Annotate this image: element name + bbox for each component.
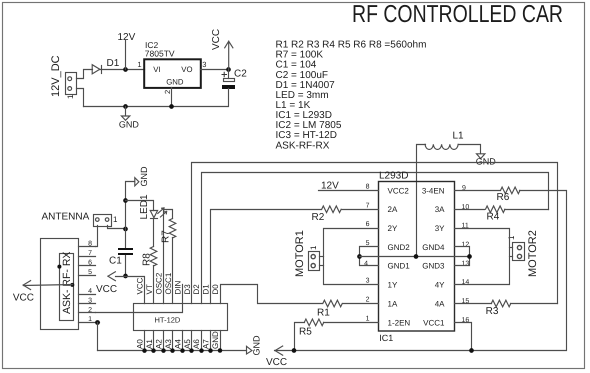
svg-text:3-4EN: 3-4EN: [422, 186, 445, 195]
gnd rail bottom left: [98, 350, 247, 352]
svg-text:LED1: LED1: [139, 194, 150, 219]
svg-text:14: 14: [462, 279, 470, 286]
junction A1: [151, 348, 156, 353]
MOTOR2 pin circle 2: [517, 254, 521, 258]
wire R8 to VT column: [153, 266, 155, 304]
resistor R1: [323, 300, 342, 307]
svg-text:1: 1: [137, 60, 141, 69]
connector J1 12V_DC body: [66, 73, 77, 95]
svg-text:VCC: VCC: [96, 284, 117, 295]
svg-text:VCC: VCC: [266, 357, 287, 368]
svg-text:12V: 12V: [118, 32, 136, 43]
diode D1 triangle: [92, 65, 100, 74]
wire R7 to OSC1 column: [172, 238, 174, 304]
LED1 triangle: [150, 211, 157, 218]
svg-text:1A: 1A: [388, 299, 398, 308]
wire MOTOR2 pin2 stub: [510, 256, 513, 258]
svg-text:A0: A0: [136, 339, 145, 349]
wire antenna left pin to ASK pin8: [96, 226, 98, 247]
antenna pin circle left: [96, 218, 100, 222]
wire pin15 to R3: [455, 303, 492, 305]
HT12D bottom pin A3: [172, 331, 174, 351]
junction A6: [199, 348, 204, 353]
svg-text:VT: VT: [145, 284, 154, 294]
MOTOR2 pin circle 1: [517, 246, 521, 250]
svg-text:D2: D2: [192, 284, 201, 295]
svg-text:GND2: GND2: [388, 243, 411, 252]
junction GND4 bracket: [467, 254, 472, 259]
svg-text:A1: A1: [145, 339, 154, 349]
junction C1 VCC node: [123, 274, 128, 279]
svg-text:VO: VO: [181, 65, 192, 74]
VCC arrow at HT12D: [108, 272, 116, 281]
wire R1 to pin 2: [343, 303, 379, 305]
svg-text:HT-12D: HT-12D: [155, 315, 181, 324]
svg-text:13: 13: [462, 260, 470, 267]
ASK module inner dot left: [57, 265, 61, 269]
junction GND rail node: [123, 104, 128, 109]
wire far left VCC to module: [24, 285, 73, 286]
svg-text:GND: GND: [476, 157, 497, 167]
wire R5 to pin 1: [324, 322, 379, 324]
wire pin9 to R6: [455, 190, 501, 192]
wire D0 to R1: [221, 285, 323, 304]
svg-text:ASK-RF-RX: ASK-RF-RX: [276, 140, 330, 151]
svg-text:R1: R1: [317, 308, 330, 319]
junction R5 rail: [292, 348, 297, 353]
resistor R8: [150, 247, 157, 266]
HT12D bottom pin A2: [163, 331, 165, 351]
junction A5: [189, 348, 194, 353]
svg-text:3: 3: [366, 278, 370, 285]
svg-text:L293D: L293D: [379, 171, 408, 182]
wire IC2 VO to VCC/C2 node: [201, 69, 229, 71]
IC1 pin numbers right: [462, 185, 470, 324]
junction GND center L1: [414, 254, 419, 259]
capacitor C1 bottom plate: [118, 253, 133, 255]
svg-text:VCC: VCC: [13, 293, 34, 304]
HT12D bottom pin A0: [144, 331, 146, 351]
svg-text:4A: 4A: [435, 299, 445, 308]
wire loop B D2 to R4 top/right: [202, 173, 549, 304]
svg-text:1: 1: [113, 215, 118, 224]
IC1 pin name labels: [388, 186, 446, 327]
wire ASK pin1 to gnd rail: [97, 323, 99, 351]
svg-text:VCC: VCC: [211, 29, 222, 50]
svg-text:1: 1: [309, 245, 318, 250]
wire 12V to pin 8 VCC2: [319, 190, 379, 192]
wire LED to R8: [153, 219, 155, 247]
wire IC2 pin2 stem: [171, 88, 173, 107]
resistor R7: [169, 219, 176, 238]
connector J1 pin circle 2: [68, 77, 72, 81]
ASK pin stub 7: [79, 256, 96, 258]
capacitor C1 top plate: [118, 248, 133, 250]
svg-text:A3: A3: [164, 339, 173, 349]
svg-text:1: 1: [507, 235, 516, 240]
svg-text:IC1: IC1: [379, 333, 393, 343]
junction antenna gnd column: [123, 227, 128, 232]
svg-text:R5: R5: [299, 327, 312, 338]
svg-text:6: 6: [88, 260, 92, 267]
junction A7: [208, 348, 213, 353]
svg-text:1-2EN: 1-2EN: [388, 318, 411, 327]
svg-text:GND: GND: [166, 78, 184, 87]
junction VCC C2 node: [226, 67, 231, 72]
wire MOTOR2 pin1 to 3Y4Y: [510, 247, 513, 249]
ground symbol GND top-left: [121, 107, 129, 121]
junction A3: [170, 348, 175, 353]
svg-text:12V_DC: 12V_DC: [50, 55, 62, 97]
wire pin16 VCC1 to rail: [455, 323, 472, 351]
ASK pin stub 2: [79, 312, 96, 314]
svg-text:8: 8: [366, 183, 370, 190]
HT12D bottom pin A7: [210, 331, 212, 351]
parts list values: [276, 40, 427, 152]
wire pin12 GND4 bracket: [455, 247, 470, 266]
wire gnd symbol to column: [126, 182, 135, 249]
MOTOR1 pin circle 1: [311, 255, 315, 259]
resistor R5: [304, 319, 323, 326]
svg-text:12: 12: [462, 242, 470, 249]
junction gnd led branch: [123, 198, 128, 203]
svg-text:1Y: 1Y: [388, 281, 398, 290]
HT12D top pin labels: [136, 272, 221, 294]
svg-text:ANTENNA: ANTENNA: [42, 212, 90, 223]
wire GND row between brackets: [360, 256, 470, 258]
wire VCC node to VCC column: [116, 277, 145, 304]
junction GND2 bracket: [357, 254, 362, 259]
HT12D bottom pin labels: [136, 331, 221, 349]
decoder IC3 HT-12D box: [134, 304, 228, 331]
IC1 pin numbers left: [364, 183, 370, 322]
svg-text:D1: D1: [107, 58, 120, 69]
svg-text:2: 2: [88, 307, 92, 314]
svg-text:2: 2: [366, 297, 370, 304]
wire 3Y loop to 4Y: [455, 229, 510, 285]
ASK pin numbers: [88, 241, 92, 324]
wire MOTOR1 pin2 to 1Y2Y: [320, 265, 324, 267]
svg-text:GND1: GND1: [388, 262, 411, 271]
svg-text:C1: C1: [109, 256, 122, 267]
wire pin10 to R4: [455, 209, 485, 211]
wire loop A D3 to R3 top/right: [192, 163, 558, 304]
svg-text:1: 1: [88, 316, 92, 323]
ASK pin stub 5: [79, 275, 96, 277]
ASK pin stub 8: [79, 246, 96, 248]
ground symbol GND at L1: [477, 154, 485, 159]
junction ASK pin1: [95, 320, 100, 325]
LED1 cathode bar: [151, 218, 158, 220]
svg-text:A7: A7: [202, 339, 211, 349]
wire R7 top link to OSC2: [164, 210, 173, 304]
svg-text:3A: 3A: [435, 205, 445, 214]
svg-text:A2: A2: [154, 339, 163, 349]
svg-text:4: 4: [364, 260, 368, 267]
ground symbol bottom rail: [247, 346, 252, 354]
capacitor C2 top plate: [224, 79, 235, 82]
ASK module inner dot right: [70, 283, 74, 287]
svg-text:D0: D0: [211, 284, 220, 295]
wire R4 to loop B: [505, 209, 549, 211]
ASK pin stub 1: [79, 322, 100, 324]
wire pin5 GND2 bracket: [360, 247, 379, 266]
LED1 emission arrows: [158, 208, 167, 217]
svg-text:A6: A6: [192, 339, 201, 349]
wire C1 bottom to VCC node: [125, 256, 127, 277]
antenna pin circle right: [105, 218, 109, 222]
svg-text:1: 1: [66, 94, 75, 99]
svg-text:6: 6: [366, 221, 370, 228]
inductor L1 coil: [425, 144, 458, 149]
svg-text:OSC1: OSC1: [164, 272, 173, 294]
connector J1 pin circle 1: [68, 87, 72, 91]
svg-text:3: 3: [202, 60, 206, 69]
svg-text:VI: VI: [153, 65, 160, 74]
junction A0: [142, 348, 147, 353]
svg-text:R7: R7: [161, 230, 172, 243]
ground symbol GND above C1: [135, 178, 139, 186]
ASK pin stub 6: [79, 265, 96, 267]
svg-text:VCC2: VCC2: [388, 186, 410, 195]
connector MOTOR2 body: [513, 243, 525, 261]
HT12D bottom pin A5: [191, 331, 193, 351]
HT12D bottom pin GND: [220, 331, 222, 351]
svg-text:4: 4: [88, 288, 92, 295]
motor driver IC1 L293D box: [379, 182, 455, 332]
svg-text:4Y: 4Y: [435, 281, 445, 290]
wire MOTOR1 pin1 stub: [320, 256, 324, 258]
svg-text:8: 8: [88, 241, 92, 248]
wire 2Y loop to 1Y: [324, 229, 379, 285]
wire D1col to R2: [211, 210, 322, 304]
capacitor C2 bottom plate: [222, 85, 235, 89]
svg-text:7805TV: 7805TV: [145, 49, 175, 59]
svg-text:2Y: 2Y: [388, 224, 398, 233]
svg-text:OSC2: OSC2: [154, 272, 163, 294]
svg-text:L1: L1: [453, 131, 465, 142]
svg-text:ASK- RF- RX: ASK- RF- RX: [61, 252, 73, 314]
VCC arrow bottom: [275, 346, 283, 355]
svg-text:A5: A5: [183, 339, 192, 349]
svg-text:GND: GND: [119, 120, 139, 130]
junction VCC1 rail: [469, 348, 474, 353]
HT12D bottom pin A1: [153, 331, 155, 351]
svg-text:5: 5: [88, 269, 92, 276]
svg-text:MOTOR1: MOTOR1: [294, 230, 306, 277]
svg-text:GND: GND: [211, 331, 220, 349]
HT12D bottom pin A4: [182, 331, 184, 351]
wire L1 left to GND net: [417, 145, 426, 257]
junction A2: [161, 348, 166, 353]
wire antenna right pin to gnd column: [108, 226, 126, 229]
resistor R3: [491, 300, 510, 307]
svg-text:R2: R2: [312, 212, 325, 223]
svg-text:R4: R4: [487, 212, 500, 223]
wire 12V label stem: [125, 41, 127, 70]
svg-text:R8: R8: [142, 253, 153, 266]
svg-text:3Y: 3Y: [435, 224, 445, 233]
wire L1 right to ground: [459, 145, 481, 154]
junction IC2 pin2 rail: [169, 104, 174, 109]
svg-text:D3: D3: [183, 284, 192, 295]
svg-text:VCC: VCC: [136, 277, 145, 294]
diode D1 cathode bar: [101, 66, 103, 74]
connector MOTOR1 body: [309, 252, 320, 271]
wire J1 pin1 to bottom rail: [77, 89, 84, 107]
svg-text:GND: GND: [139, 166, 149, 187]
junction 12V node: [123, 67, 128, 72]
wire C2 top stem: [228, 70, 230, 79]
VCC arrow far left: [23, 281, 31, 290]
HT12D bottom pin A6: [201, 331, 203, 351]
svg-text:GND3: GND3: [422, 262, 445, 271]
wire ASK pin2 to DIN: [96, 285, 183, 313]
RF receiver module ASK-RF-RX outer box: [41, 239, 79, 330]
wire J1 pin2 to D1 row: [77, 70, 93, 79]
wire R5 left leg: [295, 323, 305, 351]
svg-text:2: 2: [163, 90, 172, 94]
ASK pin stub 4: [79, 294, 96, 296]
svg-text:2A: 2A: [388, 205, 398, 214]
svg-text:3: 3: [88, 297, 92, 304]
svg-text:A4: A4: [173, 339, 182, 349]
ASK pin stub 3: [79, 303, 96, 305]
resistor R2: [322, 206, 341, 213]
svg-text:VCC1: VCC1: [423, 318, 445, 327]
wire C2 bottom to rail: [84, 89, 229, 107]
svg-text:GND4: GND4: [422, 243, 445, 252]
VCC arrow symbol top: [225, 41, 233, 69]
svg-text:DIN: DIN: [173, 281, 182, 295]
svg-text:R6: R6: [497, 192, 510, 203]
svg-text:C2: C2: [234, 69, 247, 80]
wire D1 to IC2 VI: [100, 69, 145, 71]
svg-text:12V: 12V: [321, 181, 339, 192]
junction GND pin: [218, 348, 223, 353]
svg-text:7: 7: [88, 250, 92, 257]
svg-text:RF CONTROLLED CAR: RF CONTROLLED CAR: [352, 1, 563, 28]
resistor R4: [486, 206, 505, 213]
voltage regulator IC2 7805 box: [144, 59, 201, 88]
wire R3 to loop A: [511, 303, 558, 305]
capacitor C2 plus sign: [222, 72, 227, 77]
svg-text:GND: GND: [252, 335, 262, 356]
wire R6 to VCC rail right: [275, 191, 567, 351]
svg-text:D1: D1: [202, 284, 211, 295]
svg-text:MOTOR2: MOTOR2: [527, 230, 539, 277]
MOTOR1 pin circle 2: [311, 264, 315, 268]
junction A4: [180, 348, 185, 353]
wire gnd branch to LED: [126, 201, 154, 211]
svg-text:1: 1: [366, 315, 370, 322]
svg-text:7: 7: [366, 202, 370, 209]
antenna connector body: [94, 215, 112, 227]
ASK-RF-RX inner box: [60, 254, 74, 321]
wire R2 to pin 7: [342, 209, 379, 211]
resistor R6: [501, 187, 520, 194]
svg-text:R3: R3: [486, 306, 499, 317]
